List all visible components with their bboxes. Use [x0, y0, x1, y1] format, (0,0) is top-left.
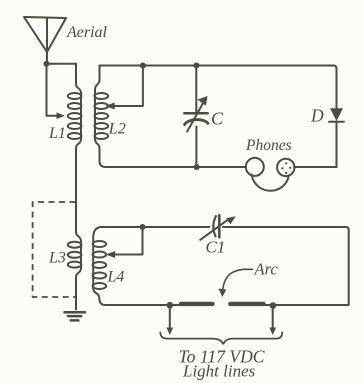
svg-text:Aerial: Aerial: [66, 24, 108, 41]
svg-text:L3: L3: [48, 250, 66, 267]
svg-text:C1: C1: [206, 238, 226, 257]
svg-text:D: D: [310, 106, 324, 126]
svg-text:Light lines: Light lines: [182, 361, 256, 380]
svg-text:L2: L2: [108, 121, 126, 138]
svg-text:C: C: [211, 109, 224, 129]
svg-text:Arc: Arc: [254, 260, 279, 279]
svg-text:L4: L4: [107, 269, 125, 286]
svg-text:Phones: Phones: [245, 137, 292, 154]
svg-text:L1: L1: [48, 125, 66, 142]
